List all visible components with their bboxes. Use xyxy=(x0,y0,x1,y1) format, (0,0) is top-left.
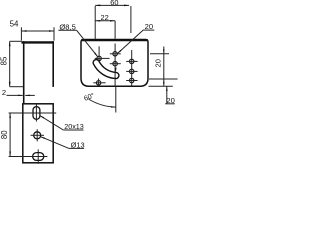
svg-text:2: 2 xyxy=(2,88,6,97)
svg-text:54: 54 xyxy=(10,20,19,29)
svg-text:22: 22 xyxy=(100,13,108,22)
svg-text:60: 60 xyxy=(110,0,118,7)
svg-text:20x13: 20x13 xyxy=(64,122,84,131)
svg-text:Ø13: Ø13 xyxy=(71,140,85,149)
svg-text:80: 80 xyxy=(0,130,9,139)
svg-text:20: 20 xyxy=(153,59,162,67)
svg-text:85: 85 xyxy=(0,56,9,65)
